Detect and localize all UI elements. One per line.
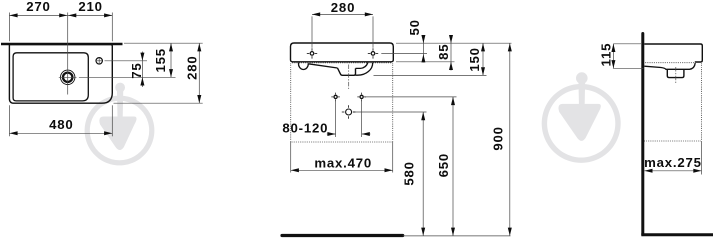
dimension 50 [422, 36, 424, 63]
dimension 270 [8, 13, 10, 42]
trap outer bend [356, 63, 373, 75]
tap centerline horizontal [59, 76, 77, 78]
svg-text:650: 650 [436, 153, 451, 177]
dimension max.275 [701, 141, 703, 175]
washbasin body (front view) [291, 43, 394, 62]
drain box (front) [338, 68, 356, 75]
washbasin outer outline (top view) [9, 45, 112, 104]
svg-text:max.470: max.470 [314, 155, 372, 170]
extension lines right of front view [396, 42, 512, 44]
svg-text:max.275: max.275 [644, 155, 702, 170]
overflow hole [96, 58, 102, 64]
svg-text:75: 75 [129, 62, 144, 78]
svg-text:50: 50 [407, 19, 422, 35]
floor line (side view) [641, 233, 713, 236]
drain centerline (side) [675, 67, 677, 84]
dimension 80-120 [335, 101, 337, 138]
dimension 650 [452, 97, 454, 236]
svg-text:85: 85 [436, 44, 451, 60]
floor thin line [403, 235, 511, 237]
svg-text:480: 480 [49, 117, 73, 132]
washbasin inner bowl (top view) [13, 53, 88, 101]
hidden bottom edge dotted (side) [645, 62, 695, 64]
dimension max.470 [290, 142, 292, 173]
wall line (top view) [1, 43, 123, 46]
max.275 dashed boundary horizontal [644, 140, 701, 142]
trap inner bend [356, 63, 368, 69]
svg-text:270: 270 [26, 0, 50, 14]
washbasin body (side view) [644, 44, 702, 62]
svg-text:155: 155 [153, 48, 168, 72]
svg-text:580: 580 [402, 161, 417, 185]
dimension 280 (front) [311, 16, 313, 47]
dimension 280 (top view depth) [114, 102, 203, 104]
bowl underside slope (front) [308, 64, 337, 68]
svg-text:900: 900 [491, 126, 506, 150]
drain centerline (front) [348, 65, 350, 90]
floor thick line [282, 234, 403, 237]
max region dashed box [290, 64, 292, 143]
mounting hole crosshair right [368, 48, 378, 58]
dimension 85 [450, 36, 452, 71]
mounting hole crosshair left [307, 48, 317, 58]
svg-text:280: 280 [331, 0, 355, 15]
watermark logo left [85, 83, 155, 166]
dimension 480 [8, 105, 10, 136]
tap hole [60, 70, 74, 84]
bowl underside (side) [644, 63, 695, 69]
lower fixing hole crosshair right [357, 93, 366, 102]
drain box (side) [667, 69, 684, 77]
hidden bottom edge dotted (front) [292, 62, 392, 64]
siphon crosshair [342, 105, 356, 119]
dimension 900 [509, 43, 511, 236]
lower fixing hole crosshair left [331, 93, 340, 102]
tap centerline vertical [67, 13, 69, 95]
dimension 210 [68, 13, 76, 17]
overflow hook under body [299, 63, 309, 70]
dimension 75 [105, 60, 148, 62]
max.275 dashed boundary vertical [701, 64, 703, 142]
dimension 580 [422, 112, 424, 236]
dimension 115 [613, 43, 641, 45]
svg-text:115: 115 [598, 43, 613, 67]
wall line (side view) [641, 34, 644, 235]
svg-text:150: 150 [467, 47, 482, 71]
svg-text:280: 280 [185, 55, 200, 79]
watermark logo right [542, 72, 621, 163]
svg-text:80-120: 80-120 [282, 120, 328, 135]
dimension 155 [124, 42, 203, 44]
dimension 150 [482, 43, 484, 75]
svg-text:210: 210 [78, 0, 102, 14]
